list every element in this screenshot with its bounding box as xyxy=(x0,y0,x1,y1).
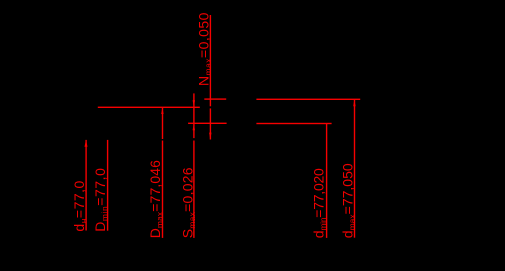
label Nmax=0,050 xyxy=(196,12,214,86)
dimension line dmax with upward arrowhead below dmax level xyxy=(353,99,355,238)
level line dmax right segment (shaft max 77,050) xyxy=(256,99,360,100)
dimension line Nmax with down arrowhead at zero line, gap at Dmax level xyxy=(209,15,211,140)
level line dmin right segment (shaft min 77,020) xyxy=(256,123,331,124)
dimension line Dmin xyxy=(107,140,108,231)
label Dmin=77,0 xyxy=(92,168,110,232)
label dmax=77,050 xyxy=(340,163,358,238)
svg-text:dн=77,0: dн=77,0 xyxy=(71,180,89,231)
dimension line dmin xyxy=(326,123,327,237)
svg-text:Dmin=77,0: Dmin=77,0 xyxy=(92,168,110,232)
level line Dmax (hole max diameter 77,046) xyxy=(98,107,200,108)
level line dmin left segment (shaft min 77,020) xyxy=(188,123,227,124)
label dmin=77,020 xyxy=(311,168,329,238)
label Dmax=77,046 xyxy=(147,160,165,238)
label dн=77,0 xyxy=(71,180,89,231)
dimension line dн with upward arrowhead at zero line xyxy=(85,140,88,231)
label Smax=0,026 xyxy=(179,167,197,238)
level line dmax left segment (shaft max 77,050) xyxy=(204,98,226,99)
dimension line Dmax with upward arrowhead below Dmax level, gap at zero line xyxy=(161,107,163,238)
dimension line Smax with down arrowhead above Dmax level and up arrowhead below dmin level, gap at zero line xyxy=(193,93,195,238)
